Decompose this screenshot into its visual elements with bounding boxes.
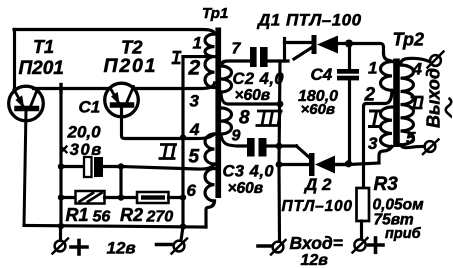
- svg-text:Вход=: Вход=: [290, 233, 343, 253]
- label Tr2 winding I: [368, 111, 381, 127]
- label Tr2 winding II: [410, 97, 424, 108]
- diode D2 PTL-100: [309, 153, 349, 176]
- svg-text:Т1: Т1: [33, 37, 54, 57]
- svg-text:5: 5: [406, 129, 416, 148]
- resistor R3: [357, 188, 370, 239]
- terminal input -12V (minus, slashed circle): [258, 240, 286, 255]
- wire drop to +12V terminal: [59, 226, 62, 241]
- svg-text:Д 2: Д 2: [303, 175, 332, 194]
- svg-text:5: 5: [189, 147, 200, 168]
- svg-text:×60в: ×60в: [228, 180, 264, 197]
- wire C3 diagonal into D2 bar: [297, 146, 311, 158]
- svg-text:R1: R1: [66, 205, 89, 225]
- wire top rail from box corner to Tr1 winding 1 entry: [14, 30, 215, 35]
- svg-text:С4: С4: [311, 65, 333, 84]
- transistor T2: [105, 83, 139, 117]
- wire drop x=121 from C1 line to R1/R2 junction: [119, 167, 122, 198]
- svg-text:R2: R2: [120, 205, 143, 225]
- svg-text:12в: 12в: [107, 239, 136, 258]
- resistor R2: [121, 192, 183, 203]
- svg-text:12в: 12в: [301, 252, 329, 268]
- wire drop to -12V terminal: [181, 227, 183, 241]
- wire minus input column x=279: [279, 61, 280, 241]
- svg-text:56: 56: [93, 209, 111, 226]
- wire Tr2 tap 4 to output terminal: [401, 58, 430, 65]
- terminal -12V (minus, slashed circle): [157, 239, 188, 254]
- label winding I of Tr1: [172, 52, 182, 63]
- Tr1 winding I bumps (taps 1-2-3): [205, 34, 215, 88]
- svg-text:Тр2: Тр2: [393, 30, 425, 50]
- svg-text:7: 7: [232, 41, 242, 58]
- svg-text:С1: С1: [79, 98, 101, 117]
- capacitor C2: [250, 47, 288, 67]
- terminal output bottom (slashed circle): [423, 140, 439, 155]
- svg-text:Д1 ПТЛ–100: Д1 ПТЛ–100: [256, 11, 362, 30]
- svg-text:Тр1: Тр1: [202, 5, 228, 22]
- node junction x=61 on wire: [59, 85, 62, 93]
- wire tap 7 to C2: [221, 61, 250, 66]
- node junction C4 top: [345, 40, 353, 48]
- wire node line D2/C4/R3-cross/tap3: [335, 163, 379, 165]
- wire T2 base lead to Tr1 tap 4: [122, 105, 215, 139]
- wire Tr2 tap 2 down to R3: [364, 90, 393, 188]
- svg-text:270: 270: [146, 209, 174, 226]
- svg-text:8: 8: [239, 108, 250, 129]
- svg-text:1: 1: [368, 59, 377, 78]
- svg-text:20,0: 20,0: [67, 123, 102, 142]
- svg-text:С2 4,0: С2 4,0: [233, 70, 285, 88]
- wire bottom rail: [24, 226, 206, 228]
- wire Tr1 tap 6 leg down to rail: [206, 201, 215, 227]
- svg-text:ПТЛ–100: ПТЛ–100: [282, 198, 353, 215]
- wire left edge of box down to T1: [13, 30, 16, 91]
- svg-text:9: 9: [232, 128, 241, 145]
- svg-text:П201: П201: [104, 55, 158, 77]
- Tr1 winding III bumps (taps 7-8-9): [221, 66, 232, 134]
- svg-text:приб: приб: [385, 226, 422, 242]
- svg-text:3: 3: [190, 92, 200, 111]
- wire Tr2 tap 5 to output terminal: [401, 145, 425, 148]
- svg-text:×60в: ×60в: [301, 101, 336, 118]
- node junctions (dots): [58, 101, 352, 230]
- svg-text:6: 6: [187, 181, 197, 200]
- svg-text:3: 3: [368, 134, 378, 153]
- wire tap 8 to minus column: [221, 92, 280, 104]
- wire Tr1 tap 2 to x=183 column: [183, 55, 215, 58]
- svg-text:Выход: Выход: [424, 68, 444, 128]
- Tr2 winding II bumps (taps 4-5): [401, 65, 414, 145]
- svg-text:С3 4,0: С3 4,0: [223, 163, 275, 181]
- terminal input +12V (slashed circle, plus sign): [353, 238, 384, 253]
- wire T2 collector to Tr1 tap 3: [134, 83, 215, 89]
- Tr2 winding I bumps (taps 1-2-3): [384, 53, 393, 62]
- svg-text:1: 1: [193, 34, 202, 53]
- terminal +12V (slashed circle, plus sign): [53, 239, 88, 255]
- wire Tr2 tap 3 bottom curl down to node line: [379, 147, 392, 163]
- Tr1 winding II bumps (taps 4-5-6): [205, 134, 215, 201]
- capacitor C1: [61, 157, 121, 177]
- terminal output top (slashed circle): [428, 52, 444, 68]
- label winding II of Tr1: [159, 145, 178, 159]
- wire T1 collector to T2 emitter: [34, 87, 110, 90]
- transformer Tr2 core: [393, 59, 400, 148]
- svg-text:4: 4: [189, 120, 200, 139]
- wire x=183 column (tap2 / T2 base cross / R2 / rail): [181, 57, 184, 227]
- wire tap5 feedback line from C1 junction to Tr1 tap 5: [121, 165, 215, 170]
- svg-text:П201: П201: [19, 58, 64, 79]
- wire tap 9 down to C3: [221, 134, 247, 146]
- svg-text:2: 2: [188, 57, 201, 80]
- diode D1 PTL-100: [312, 35, 384, 54]
- svg-text:4: 4: [412, 60, 423, 79]
- label output AC squiggle: [446, 98, 452, 118]
- wire C2 to D1 sloppy loop: [285, 39, 312, 62]
- wire node to D2 anode: [279, 163, 309, 166]
- svg-text:×60в: ×60в: [235, 87, 271, 104]
- resistor R1: [61, 191, 121, 204]
- capacitor C3: [247, 138, 297, 157]
- capacitor C4: [337, 44, 359, 164]
- svg-text:2: 2: [364, 85, 376, 106]
- svg-text:×30в: ×30в: [59, 141, 103, 159]
- wire +12V column x=61 down to bottom rail: [59, 89, 62, 227]
- transformer Tr1 core: [215, 28, 221, 199]
- transistor T1: [9, 86, 44, 225]
- svg-text:R3: R3: [374, 174, 399, 195]
